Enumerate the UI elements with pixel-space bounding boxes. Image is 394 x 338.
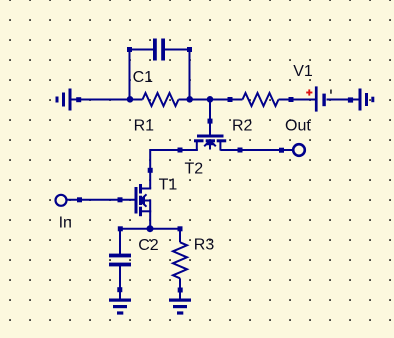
svg-text:V1: V1 [293,63,313,80]
svg-text:T2: T2 [185,160,204,177]
svg-text:R1: R1 [134,117,155,134]
svg-text:C1: C1 [133,69,154,86]
svg-text:C2: C2 [138,237,159,254]
svg-text:In: In [59,215,72,232]
svg-text:R3: R3 [194,237,215,254]
svg-text:R2: R2 [232,117,253,134]
svg-text:Out: Out [285,118,311,135]
svg-text:T1: T1 [159,176,178,193]
